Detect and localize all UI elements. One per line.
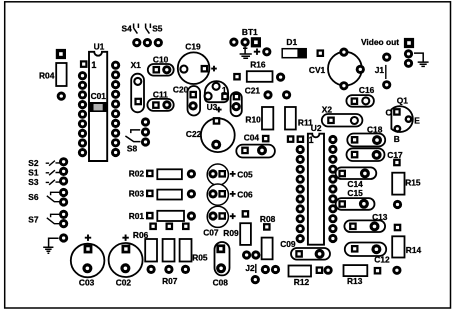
svg-text:B: B <box>394 134 400 144</box>
svg-text:R16: R16 <box>250 60 266 70</box>
svg-text:J1: J1 <box>375 65 385 75</box>
capacitor C09 <box>280 239 330 260</box>
U1 left pin pads <box>78 71 87 157</box>
battery BT1 <box>229 27 261 55</box>
svg-text:C12: C12 <box>374 254 390 264</box>
capacitor C13 <box>344 212 401 232</box>
svg-text:J2: J2 <box>245 263 255 273</box>
switch S7 <box>28 214 59 224</box>
switch S6 <box>28 192 59 202</box>
U2 pin 1 square pad <box>297 135 305 143</box>
svg-text:R12: R12 <box>294 277 310 287</box>
svg-text:R02: R02 <box>129 169 145 179</box>
switch S8 <box>125 130 140 154</box>
svg-text:C07: C07 <box>203 228 219 238</box>
switch S4 <box>122 23 139 33</box>
svg-text:C02: C02 <box>116 277 132 287</box>
svg-text:C08: C08 <box>213 277 229 287</box>
capacitor C03 <box>71 235 105 288</box>
pad (left of U2 pin 1) <box>287 135 295 143</box>
resistor R10 <box>245 90 273 129</box>
diode D1 <box>262 37 324 58</box>
capacitor C07 <box>203 206 249 237</box>
ground (BT1) <box>240 47 252 59</box>
svg-text:R15: R15 <box>405 178 421 188</box>
resistor R08 <box>260 214 276 260</box>
capacitor C04 <box>236 132 275 157</box>
switch S2 <box>28 158 59 168</box>
jumper J1 <box>375 53 392 90</box>
IC U2 (DIP body) <box>308 123 324 245</box>
capacitor C06 <box>207 184 253 205</box>
svg-text:C16: C16 <box>359 85 375 95</box>
capacitor C10 <box>148 55 174 76</box>
capacitor C12 <box>345 243 390 265</box>
svg-text:C09: C09 <box>280 239 296 249</box>
resistor R13 <box>344 265 382 286</box>
resistor R02 <box>129 169 196 180</box>
svg-text:BT1: BT1 <box>242 27 258 37</box>
resistor R07 (middle) <box>163 239 175 262</box>
svg-text:1: 1 <box>309 135 314 145</box>
capacitor C21 <box>231 85 261 116</box>
svg-text:S4: S4 <box>122 23 133 33</box>
svg-text:S6: S6 <box>28 192 39 202</box>
svg-text:X2: X2 <box>322 104 333 114</box>
U2 right pin pads <box>328 135 337 243</box>
svg-text:C20: C20 <box>173 85 189 95</box>
svg-text:C19: C19 <box>185 42 201 52</box>
svg-text:C04: C04 <box>244 132 260 142</box>
switch S3 <box>28 177 59 187</box>
U2 left pin pads <box>296 145 305 243</box>
resistor R05 <box>180 239 208 262</box>
svg-text:C11: C11 <box>153 89 168 99</box>
svg-text:U2: U2 <box>311 123 322 133</box>
pad (mounting hole above R04) <box>56 49 66 59</box>
capacitor C11 <box>147 89 173 111</box>
svg-text:S1: S1 <box>28 167 39 177</box>
S4/S5 pads <box>132 38 163 47</box>
op-amp U1 (DIP-20 IC body) <box>89 41 107 161</box>
ground (switch column) <box>43 238 58 253</box>
jumper J2 <box>242 250 280 284</box>
svg-text:R14: R14 <box>406 245 422 255</box>
svg-text:R07: R07 <box>162 276 178 286</box>
svg-text:C03: C03 <box>79 277 95 287</box>
svg-text:E: E <box>414 116 420 126</box>
svg-text:R09: R09 <box>223 228 239 238</box>
U1 right pin pads <box>111 61 120 157</box>
svg-text:R08: R08 <box>260 214 276 224</box>
capacitor C17 <box>347 148 404 161</box>
pad (below C17 label) <box>393 159 401 167</box>
svg-text:1: 1 <box>91 60 96 70</box>
resistor R01 <box>129 211 196 221</box>
resistor R14 <box>392 236 421 275</box>
svg-text:S5: S5 <box>152 24 163 34</box>
capacitor C15 <box>336 188 375 210</box>
capacitor C14 <box>336 167 377 189</box>
svg-text:S3: S3 <box>28 177 39 187</box>
svg-text:Video out: Video out <box>361 37 399 47</box>
svg-text:S8: S8 <box>127 143 138 153</box>
resistor R12 <box>289 266 333 287</box>
svg-text:D1: D1 <box>286 37 297 47</box>
crystal X1 <box>131 60 144 112</box>
svg-text:R04: R04 <box>39 71 55 81</box>
resistor R03 <box>129 189 196 200</box>
svg-text:R05: R05 <box>192 252 208 262</box>
capacitor C01 (chip on U1) <box>89 91 108 112</box>
U1 pin 1 square pad <box>80 60 88 68</box>
switch S5 <box>146 24 163 34</box>
R06/R07/R05 bottom pads <box>147 265 191 286</box>
svg-text:C: C <box>386 108 392 118</box>
capacitor C16 <box>346 85 374 107</box>
svg-text:C06: C06 <box>237 189 253 199</box>
svg-text:C21: C21 <box>245 85 261 95</box>
svg-text:CV1: CV1 <box>309 65 326 75</box>
resistor R16 <box>233 60 285 82</box>
ground (Video out) <box>414 53 429 66</box>
svg-text:S2: S2 <box>28 158 39 168</box>
svg-text:C01: C01 <box>91 91 107 101</box>
svg-text:S7: S7 <box>28 215 39 225</box>
svg-text:R10: R10 <box>245 115 261 125</box>
transistor Q1 <box>386 96 421 145</box>
svg-text:R03: R03 <box>129 189 145 199</box>
svg-text:R13: R13 <box>347 276 363 286</box>
resistor R06 <box>133 230 157 261</box>
S8 pads <box>141 117 150 146</box>
svg-text:U1: U1 <box>94 41 105 51</box>
resistor R11 <box>282 90 313 129</box>
trimmer CV1 <box>309 48 365 91</box>
svg-text:C05: C05 <box>237 169 253 179</box>
switch column pads <box>59 157 68 242</box>
capacitor C02 <box>109 235 143 288</box>
svg-text:X1: X1 <box>131 60 142 70</box>
svg-text:C17: C17 <box>387 150 403 160</box>
transistor U3 <box>205 81 229 112</box>
capacitor C05 <box>207 164 253 185</box>
svg-text:R01: R01 <box>129 211 145 221</box>
resistor R04 <box>39 63 67 101</box>
resistor R09 <box>223 223 251 245</box>
capacitor C08 <box>213 242 230 287</box>
resistor R15 <box>392 173 421 209</box>
capacitor C22 <box>186 107 235 152</box>
crystal X2 <box>322 104 363 126</box>
svg-text:Q1: Q1 <box>397 96 409 106</box>
resistor network R06/R05 top pads <box>149 223 189 231</box>
capacitor C19 <box>178 42 217 84</box>
svg-text:C15: C15 <box>347 188 363 198</box>
switch S1 <box>28 167 59 177</box>
node Video out <box>361 37 414 68</box>
capacitor C20 <box>173 85 200 116</box>
capacitor C18 <box>347 124 385 146</box>
svg-text:U3: U3 <box>207 102 218 112</box>
svg-text:C22: C22 <box>186 129 202 139</box>
